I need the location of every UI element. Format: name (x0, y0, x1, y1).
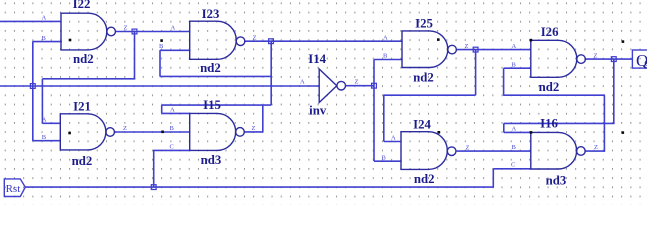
I24 output bubble (447, 147, 456, 156)
svg-text:A: A (300, 79, 305, 86)
wire I21.A (42, 122, 61, 124)
wire vertical down to I21.A (41, 79, 43, 124)
wire Q to I16.A run (504, 122, 615, 124)
I16 output bubble (577, 147, 586, 156)
svg-text:I23: I23 (202, 7, 220, 21)
svg-text:I15: I15 (203, 98, 221, 112)
svg-text:B: B (42, 134, 47, 141)
svg-text:B: B (159, 43, 164, 50)
wire I24.B entry (374, 160, 402, 162)
junction square I23.Z node (269, 39, 274, 44)
svg-text:A: A (42, 117, 47, 124)
origin dot I15 (161, 131, 164, 134)
wire I22.Z to I23.A (115, 31, 190, 33)
wire I15.C vertical from Rst (153, 150, 155, 187)
origin dot I24 (438, 131, 441, 134)
svg-text:Z: Z (594, 52, 598, 59)
wire net D input to I22.A (0, 20, 61, 22)
svg-text:B: B (512, 144, 517, 151)
svg-text:Z: Z (466, 144, 470, 151)
nand gate I25 body (402, 31, 448, 68)
origin dot I26 corner (530, 39, 533, 42)
svg-text:I26: I26 (541, 25, 559, 39)
svg-text:inv: inv (309, 104, 327, 118)
svg-text:B: B (170, 125, 175, 132)
I15 output bubble (236, 128, 245, 137)
svg-text:A: A (383, 34, 388, 41)
inverter I14 body (319, 69, 337, 103)
svg-text:A: A (391, 135, 396, 142)
wire Rst riser to I16.C (492, 169, 494, 187)
I25 output bubble (448, 45, 457, 54)
wire vertical through I14 junction (373, 60, 375, 162)
svg-text:I21: I21 (73, 100, 91, 114)
svg-text:I16: I16 (540, 117, 558, 131)
origin dot I16 corner (530, 131, 533, 134)
svg-text:nd2: nd2 (413, 70, 434, 84)
junction square Rst node (151, 185, 156, 190)
wire loop bottom run (162, 104, 272, 106)
wire I16.Z output stub (585, 150, 605, 152)
wire I15.C entry (153, 149, 190, 151)
wire I14 output (346, 85, 375, 87)
input port Rst (4, 179, 25, 197)
svg-text:Z: Z (594, 144, 598, 151)
nand gate I23 body (190, 21, 237, 59)
wire I25.B jog (374, 59, 403, 61)
wire I22.B (32, 41, 61, 43)
wire vertical I22.B/I21.B tap (32, 42, 34, 141)
svg-text:Z: Z (124, 25, 128, 32)
wire I26.B entry (504, 67, 532, 69)
wire Qbar feedback vertical (475, 50, 477, 96)
svg-text:nd2: nd2 (72, 154, 93, 168)
svg-text:Rst: Rst (6, 183, 21, 195)
svg-text:A: A (171, 24, 176, 31)
wire I16.A entry (504, 131, 532, 133)
svg-text:A: A (512, 43, 517, 50)
origin dot I26 (622, 40, 625, 43)
origin dot I21 (68, 132, 71, 135)
svg-text:C: C (511, 162, 515, 169)
wire I23.B lower run (160, 75, 272, 77)
svg-text:Z: Z (465, 43, 469, 50)
origin dot I25 (437, 38, 440, 41)
nand gate I15 body (190, 113, 236, 150)
wire I15.Z vertical up (262, 105, 264, 132)
wire Qbar feedback drop to I24.A (383, 95, 385, 141)
nand gate I21 body (60, 114, 106, 150)
wire I16.C entry (493, 168, 531, 170)
wire vertical from I22.Z junction down (134, 32, 136, 79)
wire I24.A entry (384, 141, 402, 143)
junction square I22.Z node (132, 29, 137, 34)
wire I23.B vertical (159, 50, 161, 76)
svg-text:nd3: nd3 (201, 153, 222, 167)
nand gate I16 body (531, 132, 577, 169)
wire Q vertical down (613, 59, 615, 123)
wire jog down to I15.A (161, 105, 163, 113)
wire I23.Z to I25.A (244, 40, 402, 42)
svg-text:Z: Z (123, 125, 127, 132)
svg-text:B: B (382, 154, 387, 161)
svg-text:B: B (383, 53, 388, 60)
wire vertical from I23.Z junction down (270, 41, 272, 105)
wire I24.Z to I16.B (457, 150, 532, 152)
wire horizontal to I21.A path (42, 78, 135, 80)
wire I16.Z riser (603, 95, 605, 152)
svg-text:I24: I24 (413, 117, 431, 131)
junction square I14.Z node (372, 83, 377, 88)
wire I23.B horiz (160, 49, 191, 51)
output port Q (632, 50, 647, 68)
wire I25.Z to I26.A (457, 49, 532, 51)
svg-text:Z: Z (253, 34, 257, 41)
svg-text:A: A (170, 107, 175, 114)
I23 output bubble (236, 37, 245, 46)
wire I16.Z feedback top (504, 94, 605, 96)
svg-text:A: A (512, 126, 517, 133)
svg-text:nd2: nd2 (539, 80, 560, 94)
svg-text:B: B (512, 61, 517, 68)
svg-text:I22: I22 (73, 0, 91, 11)
wire I15.A entry (162, 112, 191, 114)
svg-text:nd2: nd2 (73, 52, 94, 66)
wire I26.Z to Q port (585, 58, 633, 60)
I21 output bubble (106, 128, 115, 137)
wire I21.B (32, 140, 61, 142)
wire long D net to inverter I14 input (0, 85, 320, 87)
svg-text:I14: I14 (308, 52, 326, 66)
wire Rst net (25, 186, 494, 188)
svg-text:nd3: nd3 (546, 174, 567, 188)
origin dot I16 (622, 131, 625, 134)
nand gate I22 body (61, 13, 107, 50)
svg-text:I25: I25 (415, 17, 433, 31)
svg-text:nd2: nd2 (414, 172, 435, 186)
I26 output bubble (577, 55, 586, 64)
svg-text:A: A (42, 15, 47, 22)
nand gate I26 body (531, 40, 577, 77)
junction square Q node (611, 57, 616, 62)
wire I15.Z stub (244, 131, 263, 133)
junction square D net node (30, 84, 35, 89)
nand gate I24 body (401, 132, 447, 170)
I22 output bubble (107, 27, 116, 36)
wire I21.Z to I15.B (115, 131, 191, 133)
origin dot I23 (160, 39, 163, 42)
svg-text:nd2: nd2 (200, 61, 221, 75)
wire drop to I26.B (503, 68, 505, 96)
svg-text:B: B (42, 35, 47, 42)
junction square I25.Z node (473, 47, 478, 52)
wire Q jog down (503, 123, 505, 132)
origin dot I22 (69, 39, 72, 42)
svg-text:Z: Z (355, 79, 359, 86)
svg-text:Z: Z (252, 125, 256, 132)
wire Qbar feedback top (383, 94, 475, 96)
I14 output bubble (337, 81, 346, 90)
svg-text:C: C (170, 144, 174, 151)
